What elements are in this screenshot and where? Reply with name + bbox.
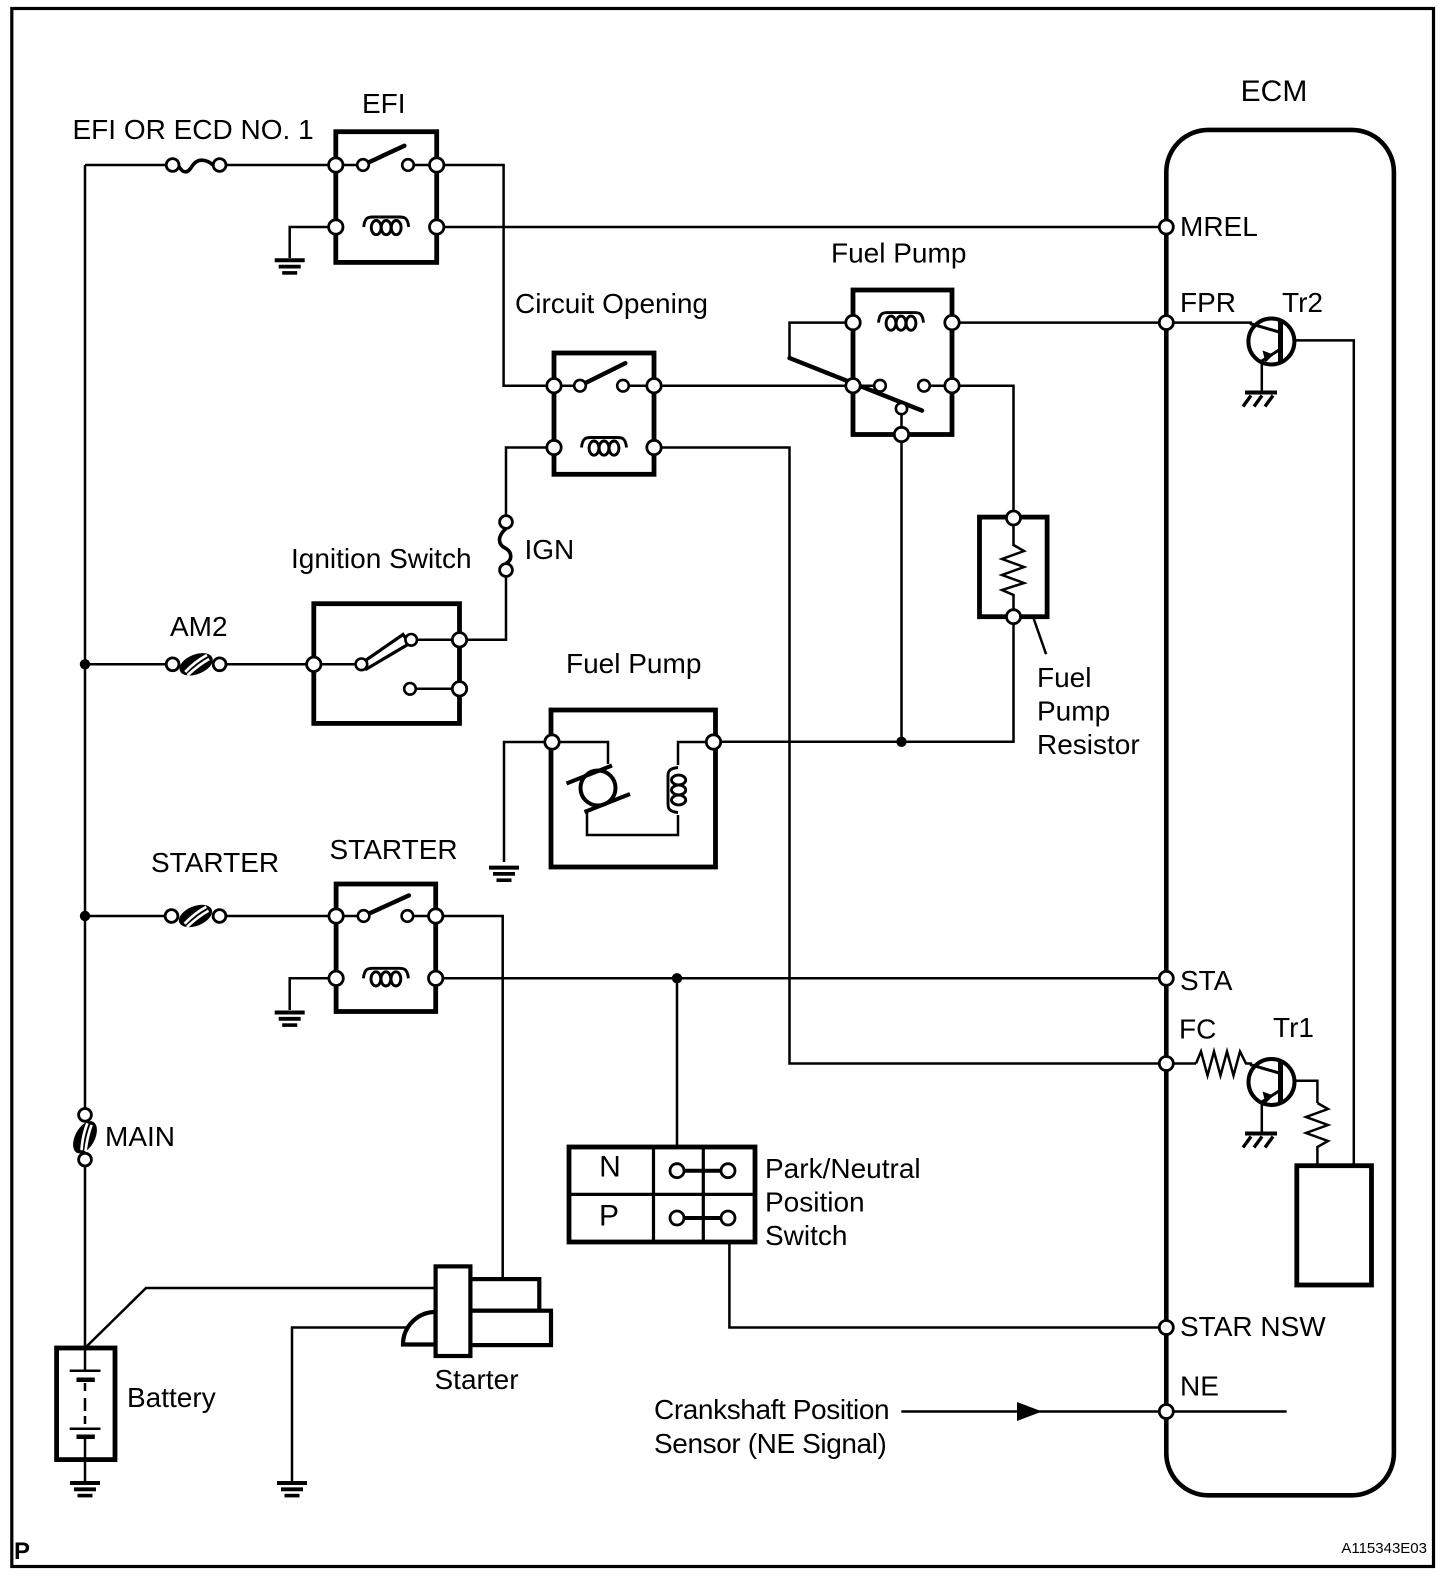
pin FPR — [1159, 316, 1173, 330]
wire park/neutral output to STAR NSW — [729, 1242, 1166, 1328]
pin MREL — [1159, 220, 1173, 234]
node STARTER bus junction — [80, 911, 90, 921]
wire Fuel Pump relay switch to resistor — [953, 386, 1014, 512]
resistor FC base — [1196, 1052, 1252, 1076]
wire battery to ground — [84, 1460, 87, 1481]
ground (STARTER relay coil) — [275, 1013, 305, 1026]
svg-text:Fuel Pump: Fuel Pump — [566, 648, 701, 679]
svg-text:Pump: Pump — [1037, 696, 1110, 727]
resistor Tr1 collector — [1306, 1103, 1328, 1166]
ground (Tr1 emitter) — [1243, 1134, 1277, 1148]
ground (fuel pump) — [489, 868, 519, 881]
pin STA — [1159, 971, 1173, 985]
switch Park/Neutral Position Switch — [569, 1147, 755, 1242]
ground (Tr2 emitter) — [1243, 393, 1277, 407]
svg-text:FC: FC — [1179, 1014, 1216, 1045]
ground (battery) — [70, 1483, 100, 1496]
svg-text:STARTER: STARTER — [330, 834, 458, 865]
wire resistor bottom to fuel pump — [721, 624, 1014, 742]
fusible link STARTER — [165, 900, 226, 931]
switch Ignition Switch — [307, 604, 467, 724]
svg-text:STA: STA — [1180, 965, 1233, 996]
svg-text:NE: NE — [1180, 1371, 1219, 1402]
relay Circuit Opening — [547, 353, 661, 474]
wire Tr2 collector long run — [1281, 340, 1354, 1165]
svg-text:P: P — [14, 1538, 30, 1565]
pin NE — [1159, 1405, 1173, 1419]
fusible link MAIN — [68, 1109, 102, 1167]
svg-text:Starter: Starter — [435, 1364, 519, 1395]
transistor Tr1 — [1249, 1059, 1318, 1132]
wire Fuel Pump relay coil left + armature — [790, 323, 854, 358]
svg-text:Crankshaft Position: Crankshaft Position — [654, 1394, 889, 1425]
wire top feed to EFI fuse — [85, 164, 336, 167]
relay STARTER — [329, 884, 443, 1012]
svg-text:Circuit Opening: Circuit Opening — [515, 288, 708, 319]
wire AM2 row — [85, 663, 314, 666]
load box (Tr1/Tr2 output) — [1297, 1166, 1372, 1285]
wire EFI coil to ground — [290, 227, 336, 258]
svg-text:IGN: IGN — [525, 534, 575, 565]
starter motor — [403, 1266, 551, 1356]
node park/neutral junction — [672, 973, 682, 983]
wire park/neutral feed — [676, 978, 679, 1147]
svg-text:Battery: Battery — [127, 1382, 216, 1413]
node fuel pump feed junction — [896, 737, 906, 747]
battery Battery — [57, 1348, 115, 1460]
svg-text:EFI OR ECD NO. 1: EFI OR ECD NO. 1 — [73, 114, 314, 145]
svg-text:STAR NSW: STAR NSW — [1180, 1311, 1326, 1342]
svg-text:MAIN: MAIN — [105, 1121, 175, 1152]
svg-text:Position: Position — [765, 1187, 865, 1218]
ground (EFI relay coil) — [275, 260, 305, 273]
svg-text:Resistor: Resistor — [1037, 729, 1140, 760]
wire Circuit Opening coil left to IGN fuse — [506, 448, 554, 516]
svg-text:MREL: MREL — [1180, 211, 1258, 242]
wire EFI switch output to Circuit Opening relay — [437, 165, 554, 386]
svg-text:Park/Neutral: Park/Neutral — [765, 1153, 921, 1184]
ECM box — [1166, 130, 1394, 1495]
wire starter ground — [292, 1328, 412, 1482]
svg-text:ECM: ECM — [1241, 75, 1308, 108]
wire MREL — [437, 226, 1166, 229]
motor Fuel Pump — [545, 710, 721, 867]
fuse EFI OR ECD NO. 1 — [166, 159, 226, 172]
svg-text:Ignition Switch: Ignition Switch — [291, 543, 472, 574]
svg-text:Sensor (NE Signal): Sensor (NE Signal) — [654, 1428, 886, 1459]
svg-text:A115343E03: A115343E03 — [1341, 1540, 1427, 1557]
wire battery to starter — [85, 1288, 436, 1348]
fuse IGN — [499, 516, 512, 577]
svg-text:Tr2: Tr2 — [1282, 287, 1323, 318]
svg-text:N: N — [599, 1151, 621, 1184]
svg-text:Fuel: Fuel — [1037, 662, 1091, 693]
wire FPR — [953, 321, 1166, 324]
wire pointer to Fuel Pump Resistor label — [1034, 619, 1046, 654]
wire IGN fuse to Ignition Switch — [460, 577, 507, 640]
svg-text:P: P — [599, 1200, 619, 1233]
pin FC — [1159, 1057, 1173, 1071]
relay Fuel Pump — [790, 290, 960, 442]
wire Circuit Opening switch to Fuel Pump relay — [654, 384, 853, 387]
ground (starter motor) — [277, 1483, 307, 1496]
relay EFI — [329, 132, 444, 263]
wire STA — [436, 977, 1166, 980]
svg-text:Tr1: Tr1 — [1273, 1012, 1314, 1043]
wire STARTER relay switch to starter motor — [436, 916, 503, 1279]
node AM2 bus junction — [80, 659, 90, 669]
wire fuel pump left terminal to ground — [504, 742, 552, 862]
svg-text:EFI: EFI — [362, 88, 406, 119]
svg-text:STARTER: STARTER — [151, 847, 279, 878]
fusible link AM2 — [166, 649, 226, 680]
wire FPR pin to Tr2 base — [1166, 321, 1252, 324]
svg-text:Switch: Switch — [765, 1220, 847, 1251]
svg-text:Fuel Pump: Fuel Pump — [831, 238, 966, 269]
wire STARTER fuse row — [85, 915, 336, 918]
svg-text:AM2: AM2 — [170, 611, 228, 642]
wire Circuit Opening coil right to FC pin — [654, 448, 1196, 1064]
resistor Fuel Pump Resistor — [980, 511, 1048, 624]
wire STARTER relay coil to ground — [290, 978, 336, 1010]
wire Fuel Pump relay bottom terminal down — [900, 442, 903, 742]
wire NE crankshaft sensor arrow — [901, 1410, 1166, 1413]
pin STAR NSW — [1159, 1321, 1173, 1335]
svg-text:FPR: FPR — [1180, 287, 1236, 318]
transistor Tr2 — [1248, 319, 1294, 392]
wire main battery bus — [84, 165, 87, 1348]
